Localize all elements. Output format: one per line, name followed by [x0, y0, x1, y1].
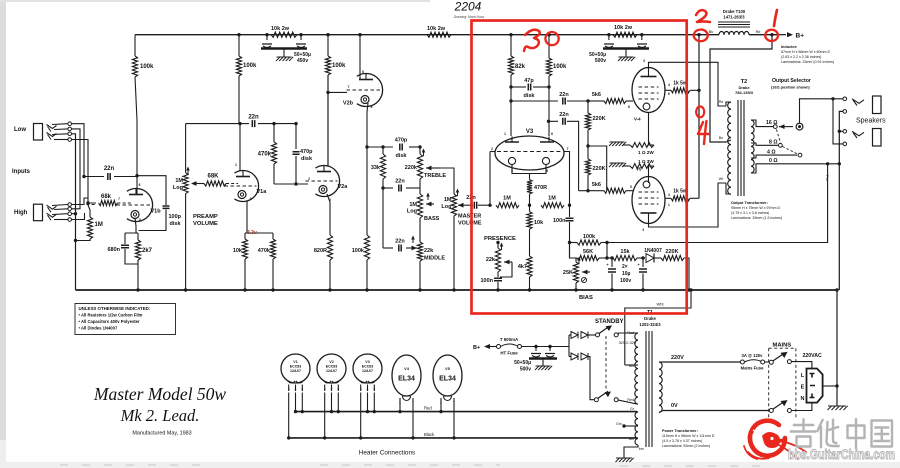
red mark 3: [524, 30, 540, 51]
wire speaker sleeve link: [839, 111, 843, 290]
svg-text:47p: 47p: [524, 78, 534, 84]
input jack Low: [34, 122, 72, 141]
svg-text:V2a: V2a: [338, 184, 349, 190]
node HT cap b: [548, 345, 551, 348]
svg-text:Black: Black: [424, 432, 435, 437]
resistor 1M (PI right): [541, 196, 564, 208]
diode pair lower: [571, 353, 595, 400]
svg-text:Mains Fuse: Mains Fuse: [741, 366, 764, 371]
svg-text:1k 5w: 1k 5w: [673, 81, 687, 87]
node 220K mid junction: [586, 144, 589, 147]
svg-text:bbs.GuitarChina.com: bbs.GuitarChina.com: [788, 447, 895, 463]
svg-text:E: E: [801, 385, 805, 391]
wire heater black rail: [288, 432, 637, 438]
node bass row junction: [381, 186, 384, 189]
svg-text:12AX7: 12AX7: [362, 369, 373, 373]
wire HT row: [522, 346, 570, 348]
red circle 2: [694, 30, 708, 42]
svg-text:0 Ω: 0 Ω: [769, 158, 778, 164]
svg-text:• All Capacitors 400v Polyeste: • All Capacitors 400v Polyester: [79, 319, 140, 324]
svg-text:PRESENCE: PRESENCE: [484, 236, 516, 242]
node MV bus junction: [452, 288, 455, 291]
wire to IEC neutral: [791, 403, 812, 411]
capacitor 22n (master out): [466, 195, 490, 209]
svg-text:4: 4: [668, 193, 670, 197]
svg-text:1M: 1M: [548, 196, 556, 202]
svg-text:Rd: Rd: [756, 30, 761, 34]
capacitor 470p disk (treble): [395, 138, 408, 160]
svg-text:2: 2: [491, 147, 493, 151]
node rail junction c: [299, 33, 302, 36]
svg-text:Log: Log: [407, 209, 417, 215]
potentiometer 25K BIAS: [563, 257, 593, 302]
svg-text:33k: 33k: [371, 165, 381, 171]
node V2a grid junction: [274, 182, 308, 185]
svg-text:ECC83: ECC83: [290, 365, 302, 369]
resistor 100k (NFB): [570, 234, 602, 245]
svg-text:220k: 220k: [405, 165, 418, 171]
potentiometer 22k presence: [486, 243, 512, 278]
svg-text:1 Ω 2W: 1 Ω 2W: [638, 150, 654, 155]
svg-text:470k: 470k: [258, 248, 271, 254]
wire standby to T1 top: [617, 333, 619, 335]
resistor 100k (V2b): [325, 35, 346, 165]
svg-text:10k: 10k: [233, 248, 243, 254]
svg-text:V4: V4: [404, 367, 410, 371]
wire V1b plate lead: [136, 176, 138, 194]
wire V3 grid right: [564, 152, 570, 206]
node tone row junction: [365, 145, 368, 148]
svg-text:V1a: V1a: [257, 189, 268, 195]
capacitor 50+50u 500v (main filter): [514, 347, 557, 373]
svg-text:Inductor:: Inductor:: [781, 45, 797, 49]
resistor 10k 2w (third dropper): [613, 25, 637, 37]
capacitor 22n (coupling V1a): [240, 115, 296, 128]
node rail junction a: [237, 33, 240, 36]
logo char zhong: [848, 420, 865, 448]
wire low contact 4 to grid bus: [72, 140, 97, 204]
svg-text:2k7: 2k7: [142, 248, 153, 254]
label 220VAC: [803, 353, 822, 359]
svg-text:470p: 470p: [395, 138, 408, 144]
wire heater red rail: [296, 406, 638, 412]
svg-text:15k: 15k: [620, 249, 630, 255]
capacitor 22n (bass): [383, 179, 420, 192]
svg-text:22k: 22k: [424, 248, 434, 254]
resistor 56K: [577, 249, 613, 261]
svg-text:450v: 450v: [297, 58, 308, 64]
svg-text:Gr: Gr: [630, 407, 635, 411]
resistor 220K (V4 grid): [585, 101, 605, 159]
svg-text:22n: 22n: [559, 112, 569, 118]
svg-text:95mm H x 79mm W x 97mm D: 95mm H x 79mm W x 97mm D: [731, 206, 781, 210]
wire 100p branch top: [137, 176, 166, 205]
svg-text:V2b: V2b: [343, 101, 354, 107]
svg-text:784-139/3: 784-139/3: [735, 90, 754, 95]
svg-text:V1: V1: [293, 360, 297, 364]
label Pur vertical: [825, 175, 830, 182]
capacitor 50+50u 500v: [589, 35, 649, 64]
svg-text:6: 6: [668, 92, 670, 96]
node 470k bus junction: [271, 288, 274, 291]
wire V2b plate: [359, 35, 361, 79]
capacitor 100n presence: [480, 278, 502, 290]
svg-text:10k 2w: 10k 2w: [271, 26, 290, 32]
svg-text:PREAMP: PREAMP: [193, 214, 218, 220]
svg-text:12AX7: 12AX7: [290, 369, 301, 373]
wire V3 left plate to 22n: [511, 100, 558, 102]
red highlight rectangle: [472, 21, 687, 314]
resistor 100k (V2b cathode): [352, 235, 370, 290]
capacitor 47p disk: [511, 78, 549, 99]
capacitor 22n (to V5): [549, 112, 579, 191]
wire B+ to OT centre tap: [710, 35, 772, 142]
wire 0V line: [663, 403, 769, 411]
svg-text:8: 8: [628, 105, 630, 109]
svg-text:4k7: 4k7: [518, 264, 527, 270]
svg-text:Blk: Blk: [629, 364, 634, 368]
svg-text:Red: Red: [424, 406, 432, 411]
svg-text:0V: 0V: [671, 403, 678, 409]
svg-text:100k: 100k: [583, 234, 596, 240]
capacitor 10u b: [637, 256, 647, 291]
notes box: [75, 304, 176, 335]
wire rail to inductor: [699, 34, 719, 36]
logo url text: [788, 447, 895, 463]
svg-text:12AX7: 12AX7: [326, 369, 337, 373]
capacitor 22n (middle): [383, 236, 417, 252]
wire V2a cathode to 820R: [327, 194, 330, 235]
svg-text:1: 1: [668, 203, 670, 207]
capacitor 10u a: [606, 256, 616, 291]
node 820R bus junction: [328, 288, 331, 291]
svg-text:220K: 220K: [593, 166, 606, 172]
svg-text:1M: 1M: [95, 222, 103, 228]
svg-text:3: 3: [643, 59, 645, 63]
label output selector: [771, 78, 811, 90]
svg-text:Bn: Bn: [719, 136, 723, 140]
svg-text:disk: disk: [395, 153, 407, 159]
svg-text:1M: 1M: [444, 197, 452, 203]
wire V1b out row: [136, 175, 138, 177]
transformer T2 secondary: [751, 120, 839, 173]
svg-text:V5: V5: [636, 167, 642, 172]
label PRESENCE: [484, 236, 516, 242]
label Power Transformer specs: [662, 429, 715, 448]
node 33k top junction: [381, 145, 384, 148]
mains switch lower: [769, 400, 791, 412]
wire NFB 0ohm tap: [601, 162, 829, 242]
svg-text:56K: 56K: [583, 249, 593, 255]
svg-text:22n: 22n: [104, 166, 115, 172]
svg-text:1: 1: [504, 132, 506, 136]
node rail junction e: [358, 33, 361, 36]
wire main ground bus: [76, 289, 838, 291]
wire bias row link: [570, 243, 578, 259]
svg-text:Manufactured May, 1983: Manufactured May, 1983: [132, 431, 191, 437]
node rail junction g: [547, 33, 550, 36]
capacitor 50+50u 450v: [261, 35, 311, 64]
wire tone stack top row: [367, 146, 420, 148]
capacitor 100n (bias filter): [553, 205, 574, 258]
svg-text:1M: 1M: [409, 202, 417, 208]
red circle 1: [765, 30, 778, 41]
label Inductor specs: [781, 45, 834, 64]
IEC connector: [801, 369, 823, 403]
label 3.3v annotation: [247, 230, 257, 236]
svg-text:10k: 10k: [534, 220, 544, 226]
svg-text:10µ: 10µ: [622, 271, 631, 277]
V3 internals: [491, 132, 569, 173]
label 4 ohm: [767, 149, 776, 155]
svg-text:Heater Connections: Heater Connections: [359, 450, 415, 457]
wire treble wiper to MV: [440, 168, 454, 194]
tube V1 heater (12AX7): [281, 354, 310, 440]
node treble top junction: [418, 145, 421, 148]
wire V4 plate: [649, 62, 727, 106]
triode V1b: [117, 183, 162, 222]
node 47p junction a: [509, 85, 512, 88]
svg-text:100k: 100k: [553, 64, 567, 70]
svg-text:MIDDLE: MIDDLE: [424, 256, 445, 262]
resistor 68K (V1a grid stopper): [191, 174, 238, 187]
red mark 2: [696, 10, 710, 22]
svg-text:EL34: EL34: [398, 376, 415, 383]
tube V2 heater (12AX7): [317, 354, 346, 440]
svg-text:5: 5: [630, 185, 632, 189]
svg-text:6: 6: [551, 132, 553, 136]
fuse HT: [497, 337, 522, 356]
svg-text:T 500mA: T 500mA: [500, 337, 519, 342]
label Heater Connections: [359, 450, 415, 457]
svg-text:Output Selector: Output Selector: [772, 78, 811, 84]
svg-text:Speakers: Speakers: [856, 118, 886, 125]
svg-text:Laminations: 52mm (2 inches): Laminations: 52mm (2 inches): [662, 444, 710, 448]
svg-text:220V: 220V: [671, 355, 684, 361]
wire doubler split: [569, 335, 571, 357]
resistor 1k5w (V4 screen): [665, 81, 699, 93]
tube V4 heater (EL34): [392, 355, 421, 440]
node 2k7 bus junction: [136, 288, 139, 291]
red circle by 3: [545, 32, 558, 45]
svg-text:329-0-329: 329-0-329: [619, 341, 636, 345]
wire V2b grid: [326, 92, 347, 166]
resistor 1 ohm 3W: [609, 159, 654, 177]
svg-text:Grn: Grn: [616, 422, 622, 426]
svg-text:V1b: V1b: [151, 208, 162, 214]
svg-text:V2: V2: [329, 360, 333, 364]
svg-text:2: 2: [308, 177, 310, 181]
pentode V4 (EL34): [628, 59, 670, 122]
svg-text:(16Ω position shown): (16Ω position shown): [771, 86, 810, 90]
node left plate junction: [509, 99, 512, 102]
potentiometer 1M Log preamp volume: [173, 124, 218, 290]
svg-text:Log: Log: [441, 204, 451, 210]
node screen rail V4: [697, 89, 700, 92]
potentiometer 1M Log BASS: [407, 179, 440, 222]
red mark 4: [698, 121, 709, 144]
resistor 100k (V1b plate load): [132, 35, 154, 176]
svg-text:1M: 1M: [503, 196, 511, 202]
svg-text:BIAS: BIAS: [579, 295, 593, 301]
node rail junction h: [607, 33, 610, 36]
svg-text:VOLUME: VOLUME: [458, 221, 482, 227]
triode V1a: [225, 163, 268, 202]
resistor 2k7: [135, 233, 152, 290]
standby switch lower: [594, 391, 618, 401]
svg-text:Power Transformer:: Power Transformer:: [662, 429, 698, 433]
ground T1 hatch: [616, 458, 634, 462]
ground earth hatch: [828, 406, 848, 410]
wire 220V line: [663, 355, 741, 362]
label 8 ohm: [769, 140, 778, 146]
svg-text:(4.5 x 3.78 x 4.37 inches): (4.5 x 3.78 x 4.37 inches): [662, 439, 702, 443]
resistor 470k (V1a cathode): [258, 233, 276, 290]
resistor 82k (V3 plate load): [508, 35, 525, 136]
resistor 4k7: [518, 256, 532, 290]
node rail junction d: [326, 33, 329, 36]
svg-text:L: L: [801, 373, 805, 379]
wire V1a plate lead: [239, 124, 241, 171]
node B+ output junction: [770, 33, 773, 36]
label 2x 10u 100v: [620, 264, 631, 284]
wire bias loop: [588, 146, 607, 191]
svg-text:68k: 68k: [101, 194, 112, 200]
resistor 10k (PI tail): [527, 205, 544, 256]
mains dashed box: [769, 348, 796, 418]
diode 1N4007: [644, 248, 662, 263]
svg-text:BASS: BASS: [424, 216, 440, 222]
svg-text:3.3v: 3.3v: [247, 230, 257, 236]
svg-text:50+50µ: 50+50µ: [514, 360, 531, 366]
svg-text:7: 7: [118, 197, 120, 201]
wire V3 cathode bracket: [512, 165, 546, 180]
resistor 100k (V3 plate load): [546, 35, 567, 136]
svg-text:• All Resistors 1/2w Carbon Fi: • All Resistors 1/2w Carbon Film: [79, 313, 143, 318]
standby gang dashed: [605, 336, 607, 390]
resistor 10k (V1a cathode): [233, 233, 248, 290]
label Output Transformer specs: [731, 201, 782, 220]
svg-text:V3: V3: [365, 360, 369, 364]
label 16 ohm: [766, 120, 777, 126]
node 1M row centre: [528, 204, 531, 207]
title manufactured: [132, 431, 191, 437]
resistor 220K (V5 grid): [585, 159, 605, 191]
capacitor 680n: [107, 233, 138, 264]
resistor 1M (input): [74, 205, 103, 242]
svg-text:• All Diodes 1N4007: • All Diodes 1N4007: [79, 326, 118, 331]
svg-text:(2.63 x 2.2 x 2.36 inches): (2.63 x 2.2 x 2.36 inches): [781, 55, 821, 59]
tube V5 heater (EL34): [433, 355, 462, 440]
resistor 10k 2w (first dropper): [271, 26, 297, 37]
svg-text:100k: 100k: [140, 64, 154, 70]
potentiometer 220k TREBLE: [405, 147, 447, 179]
node 47p junction b: [547, 85, 550, 88]
svg-text:Drake T100: Drake T100: [723, 9, 746, 14]
svg-text:115mm H x 96mm W x 111mm D: 115mm H x 96mm W x 111mm D: [662, 434, 715, 438]
svg-text:470k: 470k: [258, 152, 272, 158]
svg-text:3: 3: [642, 228, 644, 232]
label 0 ohm: [769, 158, 778, 164]
wire speaker tip link: [833, 99, 843, 144]
svg-text:Bk: Bk: [709, 30, 714, 34]
wire V5 plate: [649, 177, 727, 227]
svg-text:Inputs: Inputs: [12, 169, 31, 175]
transformer T1 primary: [659, 362, 663, 412]
input jack High: [34, 203, 72, 222]
label T1: [639, 310, 661, 327]
node grid bus junction: [86, 201, 89, 204]
wire V1b cathode to 680n: [125, 218, 138, 233]
capacitor 22n (input): [84, 166, 137, 180]
resistor 1k5w (V5 screen): [665, 189, 699, 201]
node 22n V5 junction: [547, 120, 550, 123]
svg-text:High: High: [14, 210, 28, 216]
mains switch upper: [765, 352, 792, 364]
svg-text:disk: disk: [170, 221, 182, 227]
node preamp pot bus junction: [184, 288, 187, 291]
red mark O: [696, 106, 704, 117]
svg-text:22n: 22n: [248, 115, 259, 121]
label B+ arrow: [777, 32, 804, 39]
svg-text:1471-263/3: 1471-263/3: [723, 15, 745, 20]
svg-text:7: 7: [348, 85, 350, 89]
svg-text:500v: 500v: [520, 367, 531, 373]
svg-text:Red: Red: [627, 331, 634, 335]
resistor 5k6 (V5 grid stopper): [588, 182, 633, 193]
svg-text:100p: 100p: [169, 214, 182, 220]
svg-text:MASTER: MASTER: [458, 214, 481, 220]
svg-text:100v: 100v: [620, 278, 631, 284]
svg-text:Wt: Wt: [719, 177, 723, 181]
logo char guo: [872, 421, 893, 447]
label B+ feed arrow: [473, 344, 497, 351]
svg-text:22k: 22k: [486, 257, 496, 263]
svg-text:brn: brn: [639, 447, 644, 451]
svg-text:8: 8: [139, 218, 141, 222]
svg-text:Wht: Wht: [656, 302, 664, 307]
svg-text:2×: 2×: [622, 264, 628, 270]
node presence bus junction: [496, 288, 499, 291]
node jack wire junction: [82, 175, 85, 178]
resistor 1 ohm 2W: [609, 113, 654, 156]
node 1M row left: [488, 204, 491, 207]
node V2b grid junction: [326, 91, 329, 94]
resistor 820R: [314, 235, 333, 290]
svg-text:1N4007: 1N4007: [644, 248, 662, 254]
label V2b pins: [348, 70, 373, 109]
wire high contact 4: [72, 213, 85, 220]
svg-text:V5: V5: [445, 367, 450, 371]
diode pair upper: [571, 332, 596, 339]
svg-text:B+: B+: [796, 32, 805, 39]
resistor 470k (coupling): [258, 124, 277, 184]
svg-text:68K: 68K: [207, 174, 219, 180]
svg-text:MAINS: MAINS: [773, 343, 792, 349]
svg-text:470R: 470R: [534, 185, 547, 191]
node NFB junction: [568, 241, 571, 244]
fuse mains: [740, 353, 764, 371]
svg-text:1M: 1M: [175, 178, 183, 184]
resistor 220K (bias): [661, 249, 689, 290]
wire B+ top rail: [135, 34, 699, 36]
node pur drop junction: [605, 241, 608, 260]
potentiometer 1M Log MASTER VOLUME: [441, 189, 481, 291]
label drawing credit: [454, 15, 485, 19]
svg-text:22n: 22n: [395, 179, 405, 185]
svg-text:220K: 220K: [593, 116, 606, 122]
svg-text:100n: 100n: [480, 278, 493, 284]
